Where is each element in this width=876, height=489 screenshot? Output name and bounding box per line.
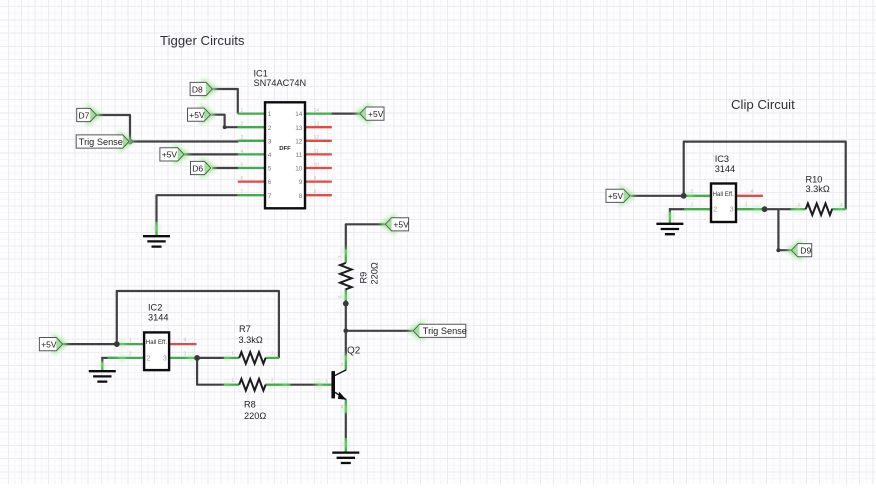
svg-text:2: 2 bbox=[271, 377, 274, 382]
svg-text:3.3kΩ: 3.3kΩ bbox=[806, 184, 830, 194]
svg-text:8: 8 bbox=[299, 193, 303, 200]
svg-text:R10: R10 bbox=[806, 174, 823, 184]
svg-text:220Ω: 220Ω bbox=[244, 411, 266, 421]
svg-text:6: 6 bbox=[241, 176, 244, 182]
svg-text:3: 3 bbox=[241, 135, 244, 141]
svg-text:D8: D8 bbox=[192, 84, 203, 94]
svg-text:1: 1 bbox=[326, 378, 329, 383]
svg-text:4: 4 bbox=[241, 149, 244, 155]
svg-text:5: 5 bbox=[241, 162, 244, 168]
svg-text:10: 10 bbox=[314, 162, 320, 168]
svg-text:3.3kΩ: 3.3kΩ bbox=[239, 335, 263, 345]
svg-text:5: 5 bbox=[268, 166, 272, 173]
svg-text:3144: 3144 bbox=[715, 164, 735, 174]
svg-text:1: 1 bbox=[129, 338, 132, 344]
svg-text:13: 13 bbox=[295, 125, 303, 132]
svg-text:11: 11 bbox=[296, 152, 303, 159]
svg-text:Q2: Q2 bbox=[347, 346, 361, 357]
svg-text:3: 3 bbox=[163, 355, 167, 362]
svg-text:1: 1 bbox=[241, 108, 244, 114]
svg-text:R8: R8 bbox=[244, 400, 256, 410]
svg-text:+5V: +5V bbox=[393, 220, 409, 230]
svg-text:D7: D7 bbox=[79, 110, 90, 120]
svg-text:2: 2 bbox=[241, 122, 244, 128]
svg-text:4: 4 bbox=[268, 152, 272, 159]
svg-text:IC3: IC3 bbox=[715, 154, 729, 164]
svg-text:Trig Sense: Trig Sense bbox=[79, 137, 123, 147]
svg-text:11: 11 bbox=[314, 149, 319, 155]
svg-text:12: 12 bbox=[314, 135, 320, 141]
svg-text:2: 2 bbox=[337, 295, 342, 298]
svg-text:+5V: +5V bbox=[368, 109, 384, 119]
svg-text:Hall Eff.: Hall Eff. bbox=[146, 339, 168, 346]
svg-text:2: 2 bbox=[691, 203, 694, 209]
svg-text:220Ω: 220Ω bbox=[370, 262, 380, 284]
svg-text:8: 8 bbox=[314, 190, 317, 196]
svg-text:3: 3 bbox=[745, 203, 748, 209]
svg-text:+5V: +5V bbox=[41, 339, 57, 349]
svg-text:1: 1 bbox=[798, 202, 801, 207]
svg-text:R7: R7 bbox=[239, 324, 251, 334]
svg-text:+5V: +5V bbox=[189, 110, 205, 120]
svg-text:+5V: +5V bbox=[162, 150, 178, 160]
svg-text:13: 13 bbox=[314, 122, 320, 128]
svg-text:3: 3 bbox=[268, 138, 272, 145]
svg-text:Tigger Circuits: Tigger Circuits bbox=[160, 33, 245, 48]
svg-text:14: 14 bbox=[314, 108, 320, 114]
svg-text:D6: D6 bbox=[192, 163, 203, 173]
svg-text:1: 1 bbox=[232, 377, 235, 382]
svg-text:7: 7 bbox=[268, 193, 272, 200]
svg-text:DFF: DFF bbox=[279, 146, 291, 152]
svg-text:D9: D9 bbox=[800, 246, 811, 256]
svg-text:12: 12 bbox=[295, 138, 303, 145]
svg-text:1: 1 bbox=[337, 255, 342, 258]
svg-text:10: 10 bbox=[295, 166, 303, 173]
svg-text:14: 14 bbox=[295, 111, 303, 118]
svg-text:7: 7 bbox=[241, 190, 244, 196]
svg-text:6: 6 bbox=[268, 179, 272, 186]
svg-text:4: 4 bbox=[751, 189, 754, 195]
svg-text:SN74AC74N: SN74AC74N bbox=[254, 78, 307, 88]
svg-text:9: 9 bbox=[299, 179, 303, 186]
svg-text:4: 4 bbox=[184, 338, 187, 344]
svg-text:2: 2 bbox=[341, 362, 344, 367]
svg-text:9: 9 bbox=[314, 176, 317, 182]
svg-text:2: 2 bbox=[713, 206, 717, 213]
svg-text:Trig Sense: Trig Sense bbox=[423, 326, 467, 336]
svg-text:2: 2 bbox=[840, 202, 843, 207]
svg-text:1: 1 bbox=[691, 189, 694, 195]
svg-text:2: 2 bbox=[268, 125, 272, 132]
svg-text:R9: R9 bbox=[359, 272, 369, 284]
svg-text:1: 1 bbox=[232, 351, 235, 356]
svg-text:Clip Circuit: Clip Circuit bbox=[731, 97, 795, 112]
svg-text:Hall Eff.: Hall Eff. bbox=[713, 191, 735, 198]
svg-text:2: 2 bbox=[146, 355, 150, 362]
svg-text:3: 3 bbox=[184, 351, 187, 357]
svg-text:3144: 3144 bbox=[148, 313, 168, 323]
svg-text:+5V: +5V bbox=[608, 191, 624, 201]
svg-text:1: 1 bbox=[268, 111, 272, 118]
svg-text:3: 3 bbox=[341, 404, 344, 409]
svg-text:3: 3 bbox=[730, 206, 734, 213]
svg-text:2: 2 bbox=[129, 351, 132, 357]
svg-text:IC2: IC2 bbox=[148, 303, 162, 313]
svg-text:IC1: IC1 bbox=[254, 69, 268, 79]
svg-text:2: 2 bbox=[271, 351, 274, 356]
